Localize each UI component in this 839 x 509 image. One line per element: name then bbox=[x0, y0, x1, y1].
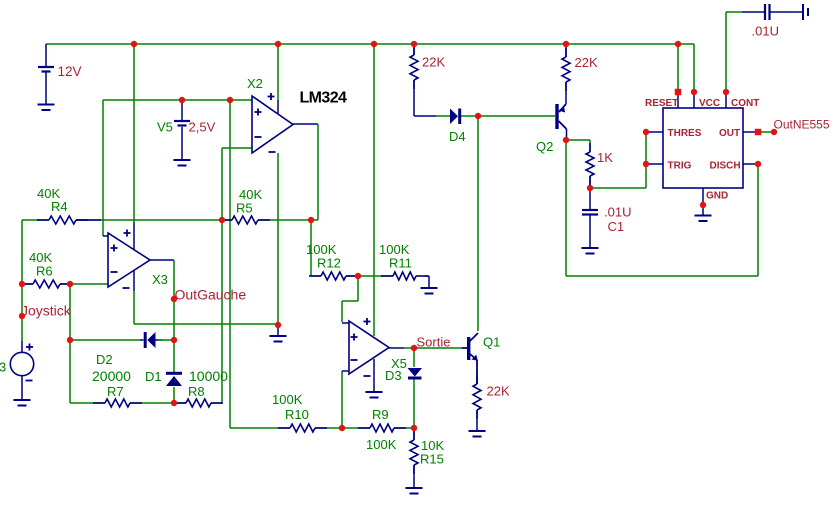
svg-text:22K: 22K bbox=[422, 55, 445, 70]
label R12 bbox=[317, 256, 341, 271]
op-amp X5 V+ sign bbox=[364, 318, 371, 325]
wire R4/R5 node horizontal (y=220) bbox=[22, 219, 318, 221]
wire TRIG stub bbox=[648, 163, 663, 165]
svg-text:THRES: THRES bbox=[668, 128, 702, 139]
label X3 bbox=[152, 272, 168, 287]
op-amp X2 V- sign bbox=[269, 151, 276, 153]
svg-text:DISCH: DISCH bbox=[710, 161, 741, 172]
label X5 bbox=[391, 356, 407, 371]
label R12 value 100K bbox=[306, 242, 337, 257]
wire R7 horizontal (y=403) bbox=[70, 402, 174, 404]
svg-text:D2: D2 bbox=[96, 352, 113, 367]
label 12V bbox=[58, 64, 82, 79]
op-amp X5 +in sign bbox=[351, 334, 358, 341]
diode D3 bbox=[408, 368, 423, 378]
svg-text:1K: 1K bbox=[597, 150, 613, 165]
wire X2 V- to ground line bbox=[277, 153, 279, 336]
ground for battery V1 bbox=[38, 105, 55, 111]
wire CONT drop bbox=[725, 12, 727, 92]
node VCC bbox=[691, 89, 697, 95]
resistor R5 40K bbox=[220, 216, 270, 224]
label D2 bbox=[96, 352, 113, 367]
node rail/X3supply bbox=[131, 41, 137, 47]
wire RESET pin stub bbox=[677, 94, 679, 108]
svg-text:2,5V: 2,5V bbox=[189, 120, 216, 135]
label R8 value 10000 bbox=[189, 368, 228, 384]
svg-text:R5: R5 bbox=[236, 201, 253, 216]
label Q1 bbox=[483, 335, 500, 350]
wire Q2 emitter lead bbox=[565, 82, 567, 104]
op-amp X3 V+ sign bbox=[124, 230, 131, 237]
svg-text:C1: C1 bbox=[608, 219, 625, 234]
label R6 bbox=[36, 264, 53, 279]
svg-text:R6: R6 bbox=[36, 264, 53, 279]
svg-text:100K: 100K bbox=[366, 437, 397, 452]
wire R10 horizontal (y=428) bbox=[230, 427, 342, 429]
svg-text:10000: 10000 bbox=[189, 368, 228, 384]
svg-text:22K: 22K bbox=[575, 55, 598, 70]
svg-text:X3: X3 bbox=[152, 272, 168, 287]
label Q2 bbox=[536, 139, 553, 154]
wire CONT pin stub bbox=[725, 94, 727, 108]
wire R11 to ground corner bbox=[425, 276, 429, 288]
wire D4 to Q2 base bbox=[461, 115, 555, 117]
node R7/R8/D1 bbox=[171, 400, 177, 406]
wire R9 horizontal (y=428) bbox=[342, 427, 414, 429]
IC U1 NE555 body bbox=[663, 108, 743, 188]
node Sortie label bbox=[417, 335, 451, 350]
node R5/X2 feedback bbox=[219, 217, 225, 223]
wire X5 -in feedback down to R9/R10 node bbox=[342, 371, 349, 428]
label D4 bbox=[449, 129, 466, 144]
label R10 value 100K bbox=[272, 392, 303, 407]
wire X5 V- to ground bbox=[373, 359, 375, 392]
svg-text:LM324: LM324 bbox=[300, 90, 347, 107]
node rail/RESET bbox=[675, 41, 681, 47]
wire X3 V- to ground line bbox=[133, 271, 135, 324]
svg-text:Joystick: Joystick bbox=[21, 303, 72, 319]
wire DISCH loop bottom (y=276) bbox=[566, 275, 758, 277]
resistor R13 22K bbox=[410, 46, 418, 89]
label R15 value 10K bbox=[421, 438, 444, 453]
node R10/R9/X5- bbox=[339, 425, 345, 431]
svg-text:R15: R15 bbox=[420, 452, 444, 467]
ground for U1 GND pin bbox=[695, 216, 712, 222]
wire D2 horizontal (y=340) bbox=[70, 339, 174, 341]
wire OUT to OutNE555 label bbox=[760, 131, 774, 133]
resistor R10 100K bbox=[278, 424, 327, 432]
node OutNE555 bbox=[771, 129, 777, 135]
svg-text:.01U: .01U bbox=[604, 205, 631, 220]
wire R8 horizontal (y=403) bbox=[174, 402, 222, 404]
battery V1 12V bbox=[38, 44, 54, 105]
svg-text:R12: R12 bbox=[317, 256, 341, 271]
op-amp X5 -in sign bbox=[351, 359, 358, 361]
label R14 value 22K bbox=[575, 55, 598, 70]
label R7 bbox=[107, 384, 124, 399]
label R4 value 40K bbox=[37, 186, 60, 201]
wire 1K to C1 node bbox=[589, 176, 591, 188]
wire DISCH loop up (x=758) bbox=[757, 164, 759, 276]
node rail/X5supply bbox=[371, 41, 377, 47]
wire OutGauche node down through D1 bbox=[173, 341, 175, 403]
op-amp X3 +in sign bbox=[111, 245, 118, 252]
svg-text:V5: V5 bbox=[157, 120, 173, 135]
resistor R6 40K bbox=[21, 280, 72, 288]
label X2 bbox=[247, 76, 263, 91]
wire Q2 collector node down (x=566) bbox=[565, 140, 567, 276]
capacitor C2 .01U (top right) bbox=[765, 4, 770, 20]
node ground node X2/X3 bbox=[275, 322, 281, 328]
label C1 bbox=[608, 219, 625, 234]
svg-text:RESET: RESET bbox=[645, 98, 678, 109]
label R6 value 40K bbox=[29, 250, 52, 265]
svg-text:100K: 100K bbox=[272, 392, 303, 407]
ground for R17 bbox=[469, 431, 486, 437]
wire rail to R14 22K (x=566) bbox=[565, 44, 567, 57]
wire X2 -in horizontal bbox=[222, 147, 252, 149]
label D1 bbox=[145, 369, 162, 384]
node TRIG bbox=[643, 161, 649, 167]
svg-text:D3: D3 bbox=[385, 368, 402, 383]
node 1K/C1/TRIG bbox=[587, 185, 593, 191]
pin label TRIG bbox=[668, 161, 692, 172]
svg-text:20000: 20000 bbox=[92, 368, 131, 384]
ground for C1 bbox=[582, 248, 599, 254]
wire R6 to X3 -in bbox=[22, 283, 108, 285]
battery V5 2.5V bbox=[174, 100, 190, 160]
label R8 bbox=[188, 384, 205, 399]
svg-text:TRIG: TRIG bbox=[668, 161, 692, 172]
node CONT bbox=[723, 89, 729, 95]
svg-text:D4: D4 bbox=[449, 129, 466, 144]
wire R12 up to y=220 node bbox=[310, 220, 312, 276]
svg-text:VCC: VCC bbox=[699, 98, 720, 109]
op-amp X5 bbox=[349, 321, 389, 374]
wire R6/D2 left column (x=70) bbox=[69, 284, 71, 403]
label R15 bbox=[420, 452, 444, 467]
svg-text:Sortie: Sortie bbox=[417, 335, 451, 350]
wire VCC pin stub bbox=[693, 94, 695, 108]
label V5 bbox=[157, 120, 173, 135]
pin label RESET bbox=[645, 98, 678, 109]
label R5 bbox=[236, 201, 253, 216]
resistor R11 100K bbox=[381, 272, 428, 280]
svg-text:OutGauche: OutGauche bbox=[175, 287, 247, 303]
wire OUT stub bbox=[743, 131, 756, 133]
resistor R17 22K (Q1 emitter) bbox=[473, 375, 481, 431]
svg-text:Q1: Q1 bbox=[483, 335, 500, 350]
svg-text:D1: D1 bbox=[145, 369, 162, 384]
wire R12/R11 horizontal (y=276) bbox=[311, 275, 393, 277]
node GND pin bbox=[700, 202, 706, 208]
svg-text:R8: R8 bbox=[188, 384, 205, 399]
resistor R8 10000 bbox=[174, 399, 223, 407]
svg-text:Q2: Q2 bbox=[536, 139, 553, 154]
wire Q2 collector to node bbox=[566, 129, 568, 140]
svg-text:22K: 22K bbox=[487, 384, 510, 399]
label V3 bbox=[0, 360, 6, 375]
wire V5 node horizontal bbox=[103, 99, 252, 101]
capacitor C1 .01U bbox=[582, 210, 598, 215]
svg-text:OutNE555: OutNE555 bbox=[774, 118, 830, 132]
resistor R15 10K bbox=[410, 431, 418, 474]
wire Sortie column through D3 bbox=[413, 348, 415, 428]
svg-text:GND: GND bbox=[706, 191, 728, 202]
op-amp X3 bbox=[108, 233, 150, 287]
node rail/X2supply bbox=[275, 41, 281, 47]
svg-text:12V: 12V bbox=[58, 64, 82, 79]
node rail/R14 bbox=[563, 41, 569, 47]
wire rail to X3 V+ (x=134) bbox=[133, 44, 135, 250]
node R4col/R6 bbox=[19, 281, 25, 287]
label D3 bbox=[385, 368, 402, 383]
wire +12V rail bbox=[46, 43, 694, 45]
wire CONT to C2 cap bbox=[726, 11, 765, 13]
ground for V3 bbox=[14, 400, 31, 406]
label 2,5V bbox=[189, 120, 216, 135]
diode D2 bbox=[145, 332, 155, 348]
op-amp X2 -in sign bbox=[255, 136, 262, 138]
wire rail to X5 V+ (x=374) bbox=[373, 44, 375, 336]
op-amp X2 V+ sign bbox=[268, 93, 275, 100]
node OutNE555 label bbox=[774, 118, 830, 132]
resistor R14 22K bbox=[562, 48, 570, 91]
wire D4 node to Q1 collector (x=478) bbox=[477, 116, 479, 331]
node THRES bbox=[643, 129, 649, 135]
wire V3 top lead bbox=[21, 341, 23, 353]
wire C1 top lead bbox=[589, 188, 591, 210]
svg-text:.01U: .01U bbox=[752, 24, 779, 39]
ground for V5 bbox=[174, 160, 191, 166]
label R11 value 100K bbox=[379, 242, 410, 257]
svg-text:R9: R9 bbox=[372, 407, 389, 422]
wire ground line X3/X2 (y=324) bbox=[134, 323, 278, 325]
op-amp X3 V- sign bbox=[123, 287, 130, 289]
node V5/R10 branch bbox=[227, 97, 233, 103]
label C1 value .01U bbox=[604, 205, 631, 220]
node R6/D2 bbox=[67, 281, 73, 287]
label R4 bbox=[51, 199, 68, 214]
wire V5 branch down to R10 (x=230) bbox=[229, 100, 231, 428]
wire rail to R13 22K (x=414) bbox=[413, 44, 415, 55]
diode D1 bbox=[166, 373, 182, 386]
node D2/D1/OutGauche bbox=[171, 337, 177, 343]
wire Sortie horizontal bbox=[389, 347, 462, 349]
node rail/R13 bbox=[411, 41, 417, 47]
label R17 value 22K bbox=[487, 384, 510, 399]
resistor R4 40K bbox=[37, 216, 101, 224]
node Joystick label bbox=[21, 303, 72, 319]
wire R12 node step to X5 +in bbox=[342, 276, 358, 323]
pin label OUT bbox=[719, 128, 740, 139]
label R5 value 40K bbox=[239, 187, 262, 202]
node R5/R12 bbox=[308, 217, 314, 223]
label R16 value 1K bbox=[597, 150, 613, 165]
pin label THRES bbox=[668, 128, 702, 139]
node RESET pin square bbox=[675, 89, 682, 96]
label R9 value 100K bbox=[366, 437, 397, 452]
wire C1 bottom lead bbox=[589, 215, 591, 249]
node V5 top bbox=[179, 97, 185, 103]
svg-text:3: 3 bbox=[0, 360, 6, 375]
node Q2 collector bbox=[563, 137, 569, 143]
voltage source V3 (Joystick) bbox=[10, 344, 33, 381]
pin label CONT bbox=[731, 98, 759, 109]
node DISCH bbox=[755, 161, 761, 167]
node OutGauche label bbox=[171, 296, 177, 302]
svg-text:R11: R11 bbox=[389, 256, 412, 271]
transistor Q1 (NPN) bbox=[462, 333, 478, 384]
transistor Q2 (PNP) bbox=[557, 104, 567, 129]
wire THRES stub bbox=[648, 131, 663, 133]
ground for C2 (rotated) bbox=[803, 4, 808, 20]
svg-text:OUT: OUT bbox=[719, 128, 740, 139]
node R12/R11/X5+ bbox=[355, 273, 361, 279]
wire rail to X2 V+ (x=278) bbox=[277, 44, 279, 114]
wire 555 GND stub bbox=[702, 188, 704, 215]
node D2 left bbox=[67, 337, 73, 343]
label R7 value 20000 bbox=[92, 368, 131, 384]
pin label GND bbox=[706, 191, 728, 202]
node D4/Q2 base/Q1 collector bbox=[475, 113, 481, 119]
op-amp X5 V- sign bbox=[364, 375, 371, 377]
wire R15 to ground bbox=[413, 428, 415, 488]
pin label VCC bbox=[699, 98, 720, 109]
ground for R11 bbox=[421, 288, 438, 294]
wire R4 left column (x=22) bbox=[21, 220, 23, 341]
svg-text:R10: R10 bbox=[285, 407, 309, 422]
wire X3 output to OutGauche bbox=[150, 260, 174, 341]
label LM324 bbox=[300, 90, 347, 107]
wire C2 cap to ground bbox=[770, 11, 804, 13]
diode D4 bbox=[450, 109, 460, 125]
wire C1 node to TRIG/THRES column bbox=[590, 132, 646, 188]
op-amp X2 +in sign bbox=[255, 109, 262, 116]
svg-text:CONT: CONT bbox=[731, 98, 759, 109]
pin label DISCH bbox=[710, 161, 741, 172]
wire X2 -in feedback column (x=222) bbox=[221, 148, 223, 403]
node Sortie node bbox=[411, 345, 417, 351]
ground for X2/X3 supply bbox=[270, 336, 287, 342]
svg-text:X2: X2 bbox=[247, 76, 263, 91]
op-amp X2 bbox=[252, 96, 293, 153]
wire V3 bottom lead bbox=[21, 376, 23, 400]
node Joystick bbox=[19, 313, 25, 319]
node OutGauche label bbox=[175, 287, 247, 303]
wire VCC drop from rail bbox=[693, 44, 695, 92]
node OUT pin square bbox=[755, 129, 762, 136]
svg-text:R4: R4 bbox=[51, 199, 68, 214]
node R9/R15/D3 bbox=[411, 425, 417, 431]
wire X2 output down bbox=[293, 124, 318, 220]
wire DISCH stub bbox=[743, 163, 758, 165]
svg-text:R7: R7 bbox=[107, 384, 124, 399]
label C2 value .01U bbox=[752, 24, 779, 39]
resistor R12 100K bbox=[309, 272, 358, 280]
wire 22K R13 to D4 (y=116) bbox=[414, 80, 450, 116]
wire Q2 collector node to 1K bbox=[566, 140, 590, 152]
wire V5 branch down to X3 +in bbox=[103, 100, 108, 236]
label R10 bbox=[285, 407, 309, 422]
label R11 bbox=[389, 256, 412, 271]
ground for R15 bbox=[406, 488, 423, 494]
ground for X5 bbox=[366, 392, 383, 398]
resistor R9 100K bbox=[358, 424, 406, 432]
resistor R16 1K bbox=[586, 143, 594, 185]
resistor R7 20000 bbox=[93, 399, 142, 407]
label R13 value 22K bbox=[422, 55, 445, 70]
wire RESET drop from rail bbox=[677, 44, 679, 91]
label R9 bbox=[372, 407, 389, 422]
op-amp X3 -in sign bbox=[111, 271, 118, 273]
